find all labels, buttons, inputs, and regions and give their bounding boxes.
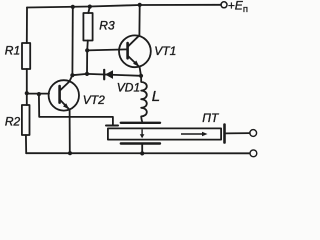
wire VT2 base lead (27, 93, 49, 95)
transistor VT2 base bar (58, 86, 61, 103)
junction dot collector node (70, 73, 74, 77)
terminal output bottom circle (250, 150, 257, 157)
svg-text:R2: R2 (5, 115, 21, 129)
junction dot VT1 base tap (85, 48, 89, 52)
resistor R1 (22, 43, 30, 69)
resistor R2 (22, 105, 30, 135)
junction dot R3 diode node (85, 72, 89, 76)
resistor R3 (83, 13, 92, 41)
wire R3 bottom lead (86, 41, 89, 51)
svg-text:+Eп: +Eп (228, 0, 248, 15)
wire R3 node to diode node (86, 50, 88, 74)
svg-text:R1: R1 (5, 44, 20, 58)
wire bottom ground rail (26, 152, 250, 154)
wire R2 to bottom rail (25, 135, 27, 153)
transducer PT propagation right arrow (181, 132, 208, 137)
wire feedback from VT2 base to PT electrode (39, 94, 113, 125)
wire bottom plate to ground rail (141, 144, 143, 154)
transistor VT1 collector to +E rail (128, 5, 140, 47)
wire left vertical from rail to R1 (26, 8, 28, 44)
transducer PT bottom plate (121, 142, 160, 144)
svg-text:VT2: VT2 (83, 93, 105, 107)
wire R1 to divider node (26, 69, 28, 105)
wire R3 top stub (88, 7, 90, 13)
junction dot top rail R3 (88, 5, 92, 9)
junction dot PT plate ground (140, 151, 144, 155)
svg-text:L: L (152, 88, 160, 105)
svg-text:VD1: VD1 (117, 81, 140, 95)
diode VD1 cathode bar (103, 70, 105, 80)
transistor VT1 emitter (128, 56, 141, 76)
junction dot VT2 emitter ground (68, 151, 72, 155)
wire +E to collector node vertical (71, 7, 73, 75)
wire VT1 base lead (87, 49, 126, 50)
wire +E top rail (27, 5, 221, 8)
inductor L (141, 76, 147, 121)
junction dot base feedback tap (37, 92, 41, 96)
transistor VT2 emitter arrow (63, 103, 69, 109)
svg-text:R3: R3 (99, 19, 115, 33)
transducer PT output plate (223, 125, 226, 143)
junction dot top rail VT1 collector (138, 3, 142, 7)
svg-text:ПТ: ПТ (202, 111, 220, 125)
transistor VT1 emitter arrow (133, 61, 139, 67)
transistor VT2 circle (49, 80, 79, 110)
terminal +E circle (221, 2, 227, 8)
transducer PT input field down arrow (140, 129, 145, 138)
transducer PT small electrode plate (106, 125, 118, 127)
junction dot emitter L node (139, 74, 143, 78)
transistor VT1 base bar (126, 43, 129, 58)
transducer PT piezo bar body (108, 128, 221, 139)
junction dot top rail left (71, 5, 75, 9)
junction dot divider node (25, 91, 29, 95)
wire collector node to VD1 (72, 74, 141, 76)
diode VD1 triangle (105, 70, 113, 79)
transistor VT2 collector (60, 75, 73, 91)
transistor VT1 circle (119, 35, 151, 67)
transistor VT2 emitter (60, 99, 70, 153)
transducer PT top plate (121, 122, 160, 124)
wire PT output lead (226, 132, 250, 134)
svg-text:VT1: VT1 (154, 44, 176, 58)
terminal output top circle (250, 130, 257, 137)
